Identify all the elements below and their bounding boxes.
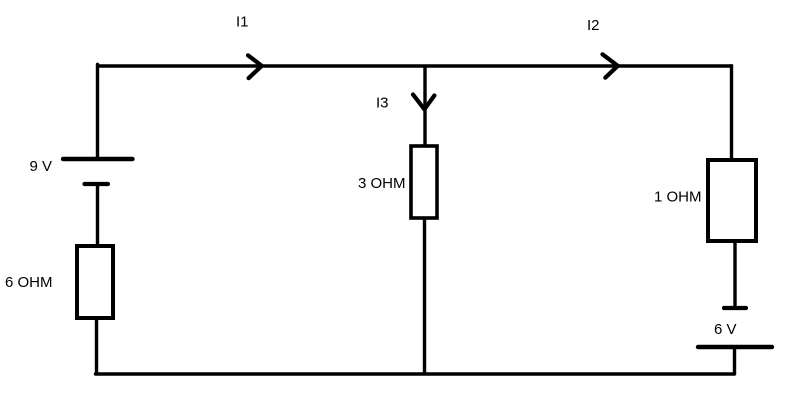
battery 6V negative plate [724, 306, 746, 310]
svg-text:3 OHM: 3 OHM [358, 175, 406, 192]
current arrow I3 [413, 95, 434, 110]
svg-text:I1: I1 [236, 14, 249, 31]
current arrow I1 [248, 55, 262, 78]
battery 6V positive plate [698, 345, 772, 349]
wire middle branch top (top node down to 3 OHM resistor) [423, 66, 426, 146]
svg-text:I3: I3 [376, 95, 389, 112]
resistor 3 OHM body [411, 146, 437, 218]
resistor 6 OHM body [77, 246, 113, 318]
wire bottom horizontal (bottom node) [96, 372, 735, 375]
svg-text:I2: I2 [587, 17, 600, 34]
wire 9V battery to 6 OHM resistor [96, 184, 99, 246]
wire 1 OHM resistor to 6V battery [733, 241, 736, 308]
wire left branch top (top node down to 9V battery) [96, 64, 99, 159]
svg-text:9 V: 9 V [30, 158, 53, 175]
svg-text:6 OHM: 6 OHM [5, 274, 53, 291]
svg-text:1 OHM: 1 OHM [654, 189, 702, 206]
wire 3 OHM resistor to bottom node [423, 218, 426, 374]
battery 9V negative plate [85, 182, 109, 186]
svg-text:6 V: 6 V [714, 321, 737, 338]
battery 9V positive plate [63, 157, 133, 161]
resistor 1 OHM body [708, 160, 756, 241]
wire 6 OHM resistor to bottom node [95, 318, 98, 374]
wire top horizontal (node 1 to node 2) [98, 64, 732, 67]
current arrow I2 [603, 54, 618, 77]
wire 6V battery to bottom node [733, 347, 736, 374]
wire right branch top (top node down to 1 OHM resistor) [730, 64, 733, 160]
